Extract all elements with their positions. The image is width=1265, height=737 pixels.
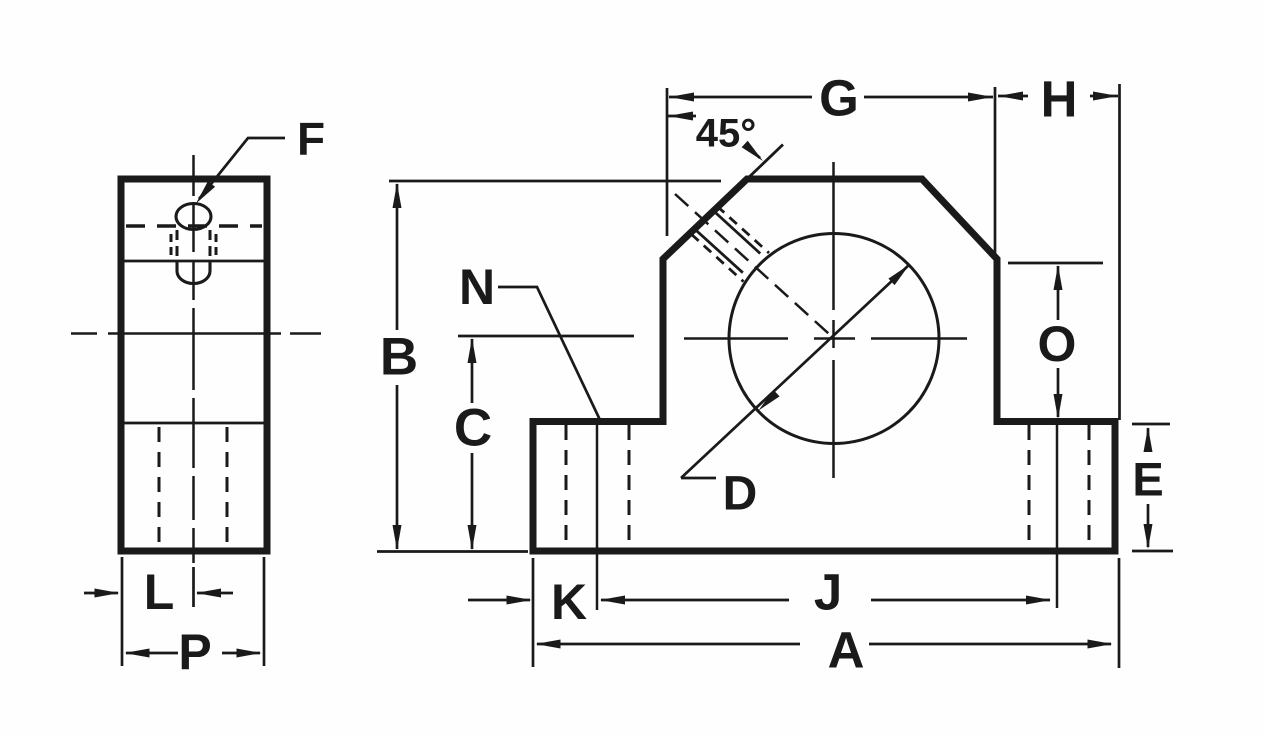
dimension E line + arrows <box>1147 428 1150 547</box>
hole F thread lines <box>171 234 216 259</box>
svg-text:P: P <box>178 624 211 680</box>
dimension J line + arrows <box>601 599 1050 602</box>
hidden mounting hole lines (right base) <box>1029 425 1089 548</box>
svg-text:A: A <box>828 622 865 679</box>
tapped hole F solid sides <box>695 210 760 272</box>
dimension O extension line <box>1008 262 1103 265</box>
dimension E extension lines <box>1132 424 1173 551</box>
dimension A right extension line <box>1118 558 1121 668</box>
tapped hole F thread dashed lines <box>691 206 769 282</box>
dimension G line + arrows <box>669 96 993 99</box>
dimension O line + arrows <box>1057 266 1060 417</box>
svg-text:D: D <box>723 468 758 521</box>
svg-text:G: G <box>819 70 859 127</box>
dimension C line + arrows <box>471 339 474 549</box>
front horizontal centerline <box>684 337 967 340</box>
dimension P extension (right edge) <box>263 557 266 666</box>
svg-text:J: J <box>814 564 842 621</box>
side view outline <box>121 179 267 551</box>
45 deg dimension left arm <box>668 115 696 118</box>
right hole centerline <box>1056 424 1059 608</box>
svg-text:O: O <box>1038 316 1077 372</box>
svg-text:F: F <box>297 113 325 165</box>
dimension C extension line <box>458 335 634 338</box>
svg-text:K: K <box>551 574 587 630</box>
front view outline <box>533 179 1115 551</box>
left hole centerline <box>596 424 599 610</box>
hole F opening ellipse <box>176 204 211 230</box>
leader for N <box>498 287 600 420</box>
bore circle D <box>729 234 939 444</box>
hole F hidden side lines <box>177 230 210 261</box>
svg-text:L: L <box>144 564 175 620</box>
45 deg chamfer extension line <box>747 145 783 180</box>
hole F bottom U <box>177 261 210 284</box>
svg-text:45°: 45° <box>696 112 757 156</box>
svg-text:H: H <box>1041 71 1078 128</box>
side view base top edge line <box>124 422 264 425</box>
svg-text:C: C <box>454 399 492 458</box>
dimension H line + arrows <box>998 95 1118 98</box>
dimension L left arrow <box>84 592 118 595</box>
hidden mounting hole lines (left base) <box>566 425 629 548</box>
dimension A line + arrows <box>537 643 1111 646</box>
dimension B extension lines <box>377 181 721 552</box>
svg-text:E: E <box>1132 453 1163 506</box>
side view vertical centerline <box>192 155 195 563</box>
dimension K outside arrow <box>468 599 530 602</box>
side view hidden chamfer top edge (dashed) <box>126 224 262 227</box>
leader for F <box>199 138 285 199</box>
dimension L extension (centerline) <box>192 567 195 607</box>
tapped hole F axis (45 deg, dashed) <box>675 194 834 339</box>
side view horizontal centerline <box>71 332 321 335</box>
dimension L right arrow <box>197 592 233 595</box>
dimension G extension lines <box>667 87 995 258</box>
dimension K/A left extension line <box>532 558 535 667</box>
side view hidden base hole lines <box>159 427 227 548</box>
side view chamfer edge line <box>124 260 264 263</box>
svg-text:N: N <box>459 259 495 315</box>
45 deg leader to chamfer <box>747 146 760 158</box>
dimension L extension (left edge) <box>121 557 124 666</box>
front vertical centerline <box>832 162 835 478</box>
diameter D line <box>681 265 910 479</box>
dimension P line + arrows <box>126 652 260 655</box>
dimension B line + arrows <box>396 184 399 549</box>
dimension H extension line <box>1118 84 1121 420</box>
svg-text:B: B <box>380 328 418 387</box>
